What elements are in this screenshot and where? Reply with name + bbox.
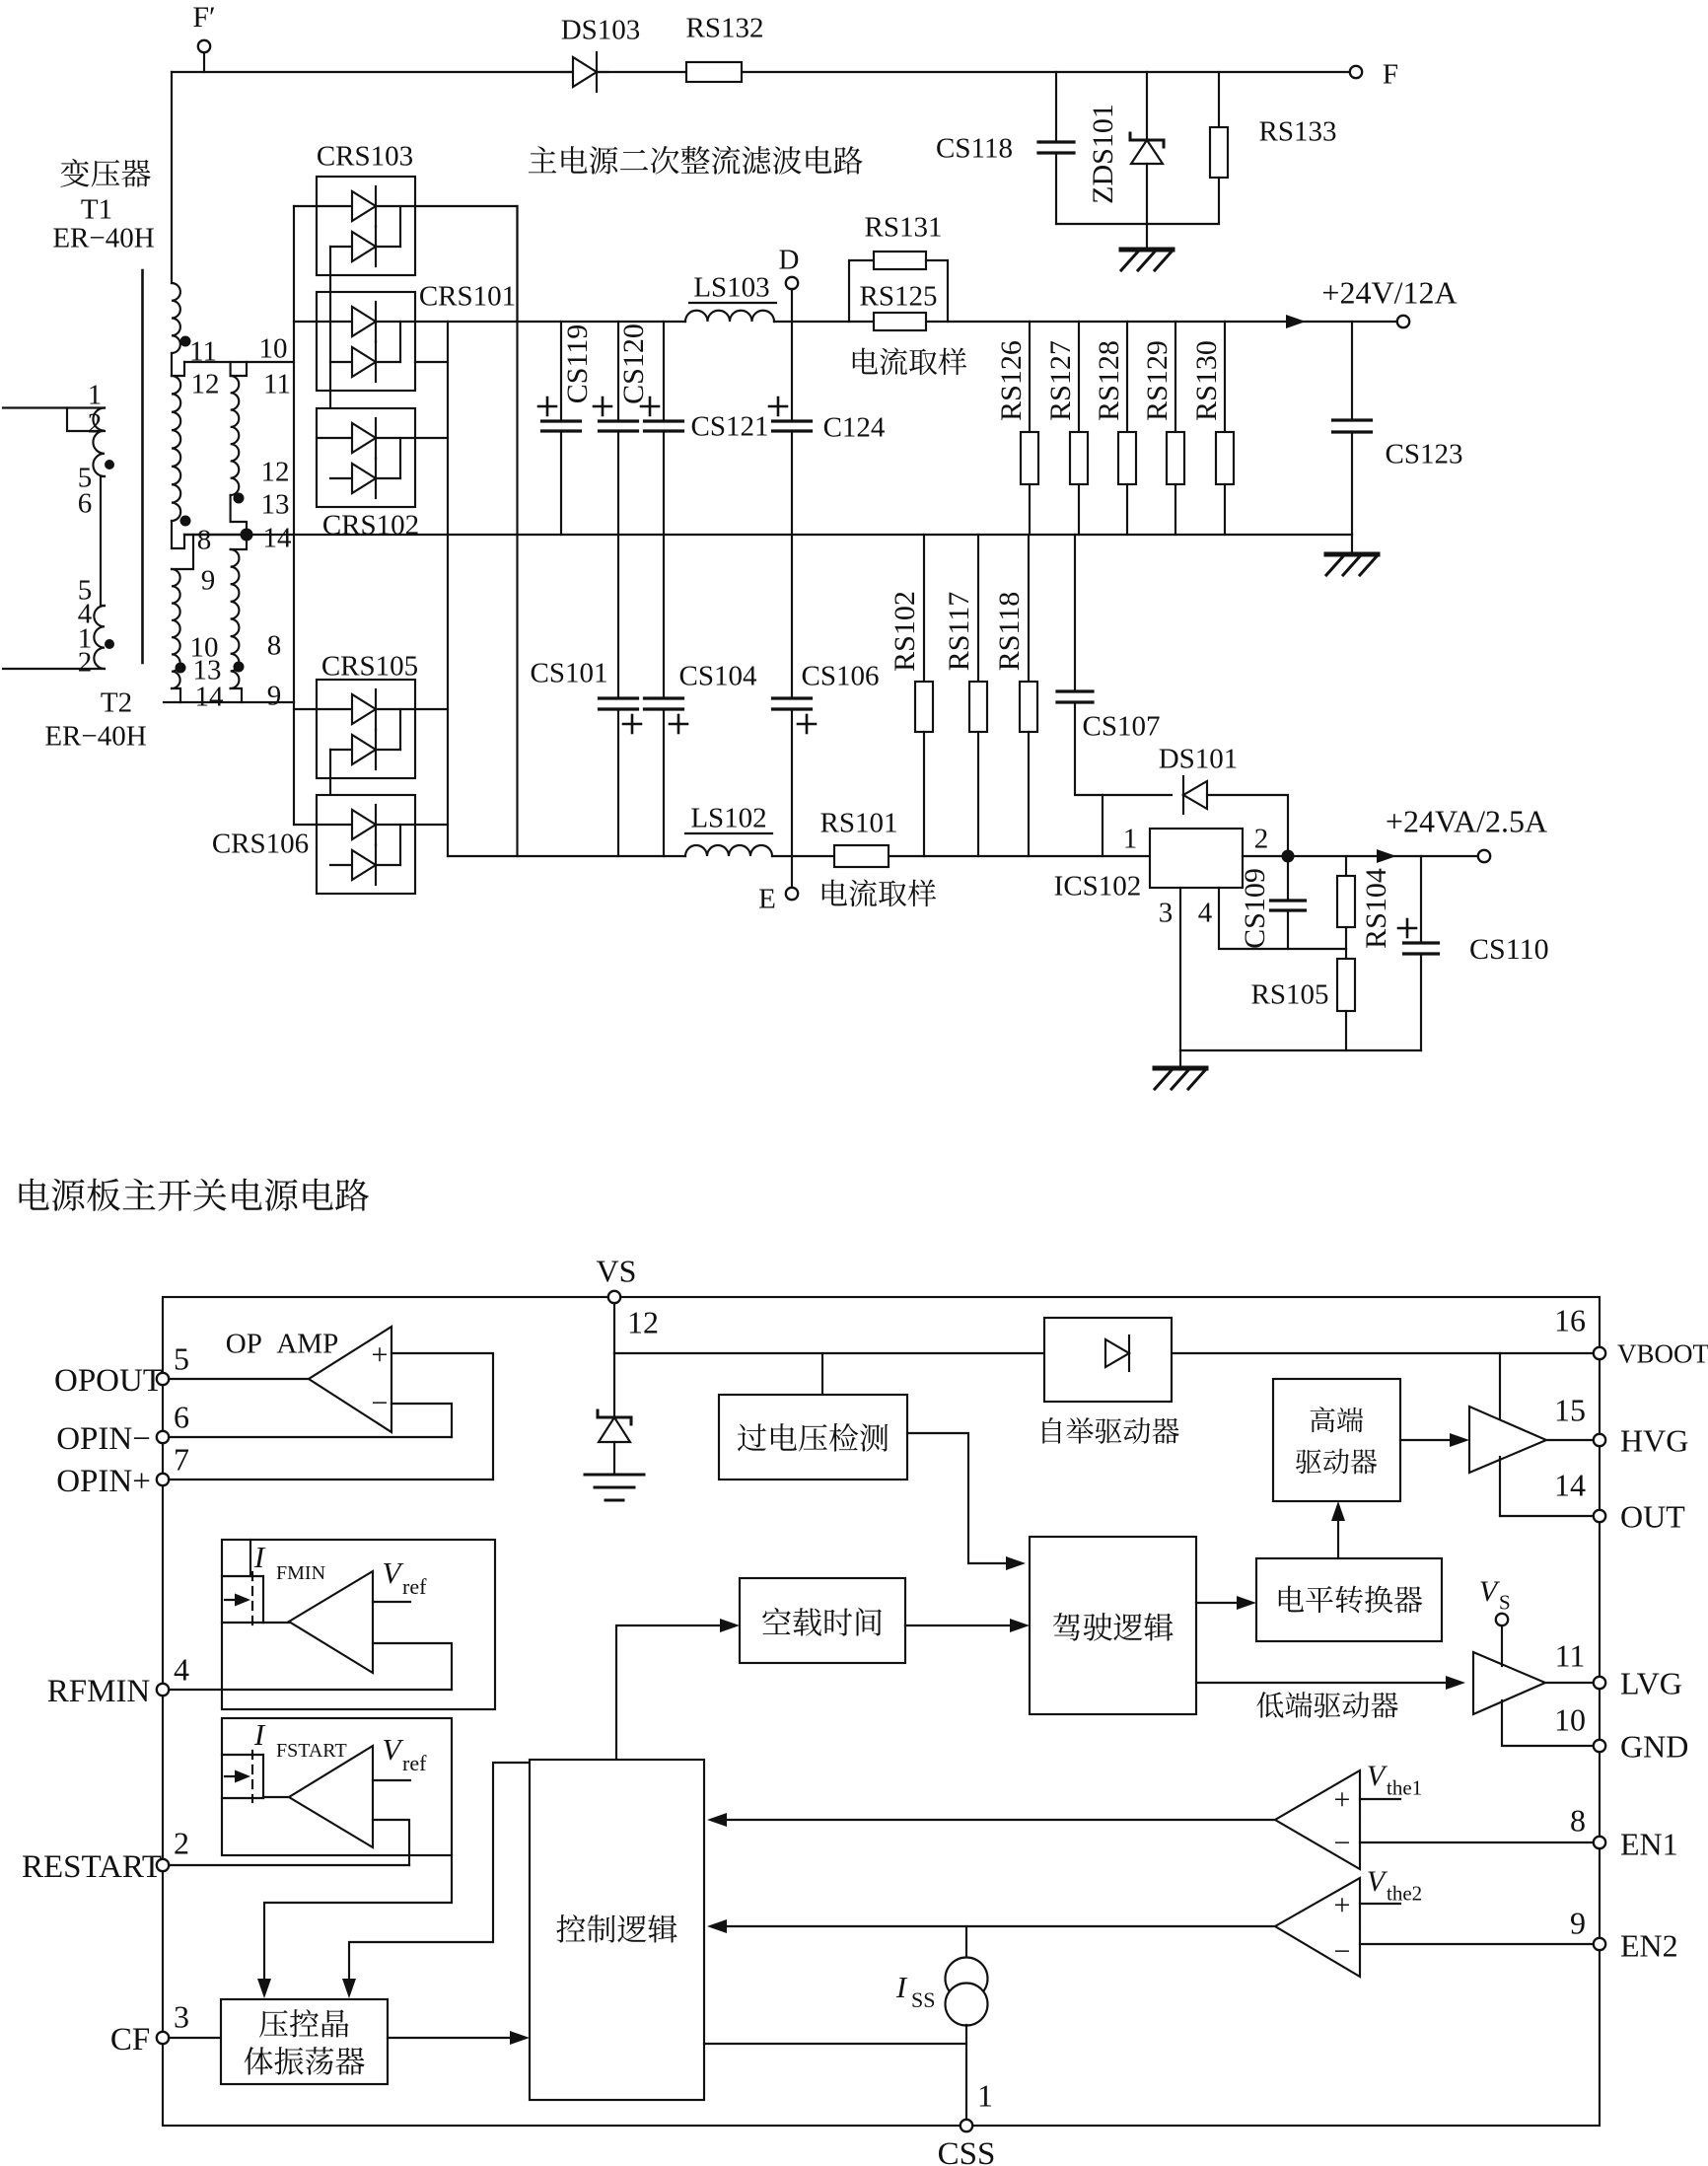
svg-text:12: 12 <box>261 456 290 487</box>
svg-text:F′: F′ <box>192 1 215 34</box>
svg-text:RS117: RS117 <box>943 592 975 672</box>
wire RESTART <box>169 1864 409 1866</box>
svg-text:VS: VS <box>597 1254 637 1289</box>
capacitor CS119 <box>542 322 581 535</box>
resistor RS104 <box>1337 856 1355 949</box>
pin2 RESTART <box>22 1826 189 1885</box>
wire ctrl to ISS <box>704 2043 966 2045</box>
pin7 OPIN+ <box>56 1442 189 1499</box>
label + (comp2) <box>1334 1889 1351 1921</box>
plus CS110 <box>1398 919 1416 937</box>
block 自举驱动器 <box>1044 1318 1172 1402</box>
anode tie CRS105-CRS106 <box>329 750 331 865</box>
pin15 HVG <box>1554 1393 1688 1459</box>
svg-text:−: − <box>1334 1935 1351 1968</box>
label ISS <box>895 1970 936 2012</box>
label CS106 <box>802 660 880 691</box>
dual diode CRS106 <box>317 795 415 894</box>
label 电流取样 (bottom) <box>822 879 936 906</box>
label + (comp1) <box>1334 1783 1351 1816</box>
svg-text:T1: T1 <box>81 193 112 225</box>
block 压控晶体振荡器 <box>221 1999 388 2084</box>
IC ICS102 <box>1150 829 1243 888</box>
svg-text:CRS103: CRS103 <box>317 140 413 172</box>
svg-text:RS132: RS132 <box>686 12 764 43</box>
svg-text:RS128: RS128 <box>1093 340 1125 421</box>
svg-text:I: I <box>253 1717 266 1752</box>
svg-text:CS119: CS119 <box>561 325 594 404</box>
svg-text:9: 9 <box>1570 1906 1586 1941</box>
comparator (IFSTART) <box>263 1746 373 1847</box>
svg-text:+24V/12A: +24V/12A <box>1321 275 1457 311</box>
svg-text:8: 8 <box>267 629 282 661</box>
capacitor CS109 <box>1271 856 1306 949</box>
pin4 RFMIN <box>47 1652 189 1709</box>
mosfet (IFMIN) <box>222 1572 263 1626</box>
wire CRS102 upper out <box>415 437 448 439</box>
label 低端驱动器 <box>1256 1692 1397 1718</box>
ground (pin3) <box>1155 1050 1206 1089</box>
block 高端驱动器 <box>1273 1379 1400 1501</box>
capacitor CS123 <box>1333 322 1372 535</box>
label RS133 <box>1259 115 1337 147</box>
dot (primary pin5) <box>105 460 114 469</box>
label 13 (right) <box>261 488 290 520</box>
svg-text:EN2: EN2 <box>1620 1928 1678 1964</box>
svg-text:2: 2 <box>174 1826 189 1861</box>
block IFMIN <box>222 1540 495 1709</box>
svg-text:EN1: EN1 <box>1620 1827 1678 1862</box>
capacitor C124 <box>773 421 812 431</box>
label 自举驱动器 <box>1042 1417 1178 1444</box>
label CS123 <box>1386 438 1463 469</box>
svg-text:OUT: OUT <box>1620 1499 1685 1535</box>
wire CRS105 out <box>415 708 448 710</box>
label RS104 <box>1360 868 1392 949</box>
zener (VS) <box>598 1353 631 1474</box>
svg-text:E: E <box>758 883 776 914</box>
svg-text:the1: the1 <box>1387 1776 1422 1800</box>
label Vref (IFMIN) <box>383 1555 428 1599</box>
label ER-40H (T2) <box>44 720 146 752</box>
label ICS102 <box>1054 870 1142 902</box>
dot (right bottom) <box>234 662 245 673</box>
capacitor CS118 <box>1038 72 1074 224</box>
terminal VS (LVG) <box>1479 1575 1511 1625</box>
plus CS120 <box>594 397 611 415</box>
svg-text:RS104: RS104 <box>1360 868 1392 949</box>
plus CS106 <box>798 715 816 733</box>
wire Vthe1 tick <box>1360 1798 1400 1800</box>
svg-text:D: D <box>779 244 800 275</box>
svg-text:9: 9 <box>267 680 282 711</box>
dot (pin 11) <box>180 336 191 347</box>
svg-text:2: 2 <box>78 646 93 678</box>
label 12 (left) <box>191 368 220 399</box>
mosfet (IFSTART) <box>222 1751 263 1802</box>
wire IFMIN lower input <box>373 1643 452 1690</box>
label CRS103 <box>317 140 413 172</box>
block 驾驶逻辑 <box>1030 1537 1196 1714</box>
label 压控晶体振荡器 <box>245 2009 365 2075</box>
wire deadtime feed <box>616 1619 740 1760</box>
wire D/C124/CS106 vertical <box>791 289 793 856</box>
label 11 (right) <box>263 368 291 399</box>
wire H1 (IFSTART to VCO) <box>257 1855 452 1998</box>
label RS128 <box>1093 340 1125 421</box>
label CS120 <box>617 324 650 404</box>
wire GND net <box>1502 1700 1594 1746</box>
label pin 4 (ICS102) <box>1198 897 1213 928</box>
wire pin4 <box>1219 888 1346 949</box>
block 空载时间 <box>740 1578 905 1663</box>
wire CRS101 upper anode <box>294 321 317 323</box>
label 驾驶逻辑 <box>1053 1613 1174 1641</box>
plus C124 <box>769 397 787 415</box>
junction dot +24VA <box>1282 850 1295 863</box>
svg-text:−: − <box>1334 1827 1351 1859</box>
wire opamp plus <box>169 1353 493 1480</box>
label F <box>1383 58 1398 90</box>
label D <box>779 244 800 275</box>
wire VS to LVG buffer <box>1501 1625 1503 1666</box>
svg-text:CRS101: CRS101 <box>419 280 516 312</box>
label RS102 <box>889 591 921 672</box>
svg-text:CF: CF <box>110 2022 150 2058</box>
ground (VS zener) <box>585 1475 644 1500</box>
anode bus x298 <box>294 206 317 825</box>
terminal E <box>786 856 798 900</box>
wire 高端 to buffer <box>1400 1433 1469 1447</box>
svg-text:RS101: RS101 <box>820 807 898 838</box>
svg-text:13: 13 <box>261 488 290 520</box>
wire comp2 out <box>707 1919 1275 1933</box>
ground (CS123) <box>1326 535 1378 575</box>
label 过电压检测 <box>738 1423 889 1452</box>
svg-text:F: F <box>1383 58 1398 90</box>
wire ISS to CSS <box>0 0 1 1</box>
svg-text:CSS: CSS <box>938 2136 996 2166</box>
resistor RS131 <box>849 252 948 322</box>
svg-text:FSTART: FSTART <box>276 1740 347 1762</box>
svg-text:CS106: CS106 <box>802 660 880 691</box>
label CSS <box>938 2136 996 2166</box>
label RS127 <box>1044 340 1077 421</box>
terminal CSS <box>961 2120 972 2131</box>
label CS110 <box>1469 933 1549 966</box>
svg-text:12: 12 <box>191 368 220 399</box>
pin8 EN1 <box>1570 1803 1678 1862</box>
wire Vthe2 tick <box>1360 1903 1400 1905</box>
label - (opamp) <box>372 1387 389 1419</box>
buffer HVG <box>1469 1407 1546 1473</box>
label RS125 <box>860 280 938 312</box>
wire primary series link <box>101 476 105 606</box>
label 14 (right) <box>263 522 293 553</box>
svg-text:+: + <box>1334 1889 1351 1921</box>
wire buffer to HVG <box>1546 1439 1594 1441</box>
label CS109 <box>1239 868 1271 949</box>
wire zener bottom rail <box>1056 223 1219 225</box>
capacitor CS101 <box>600 535 638 856</box>
svg-text:−: − <box>372 1387 389 1419</box>
svg-text:+: + <box>1334 1783 1351 1816</box>
label IFMIN <box>253 1540 325 1584</box>
label 2 (T2 primary) <box>78 646 93 678</box>
label 4 (T2 primary) <box>78 598 93 629</box>
label CS104 <box>679 660 757 691</box>
svg-text:OPIN−: OPIN− <box>56 1421 151 1457</box>
svg-text:ZDS101: ZDS101 <box>1087 104 1119 204</box>
svg-text:RS118: RS118 <box>993 592 1026 672</box>
vertical bus x454 <box>447 322 449 856</box>
label RS131 <box>865 211 943 243</box>
svg-text:4: 4 <box>174 1652 189 1688</box>
svg-text:GND: GND <box>1620 1729 1688 1765</box>
primary tie pins 1-2 <box>67 408 105 432</box>
label DS101 <box>1159 743 1239 774</box>
wire CRS106 upper anode <box>294 824 317 826</box>
resistor RS125 <box>874 313 926 330</box>
svg-text:11: 11 <box>263 368 291 399</box>
svg-text:LS102: LS102 <box>690 802 766 833</box>
label 1 (T2 primary) <box>78 622 93 654</box>
wire H2 (ctrl to VCO) <box>342 1763 530 1998</box>
svg-text:CS104: CS104 <box>679 660 757 691</box>
label 9 (left) <box>201 564 216 596</box>
label 6 (primary) <box>78 487 93 519</box>
svg-text:CRS106: CRS106 <box>212 828 309 859</box>
svg-text:the2: the2 <box>1387 1882 1422 1906</box>
wire pin3 ground <box>1179 888 1181 1050</box>
svg-text:1: 1 <box>977 2078 993 2114</box>
svg-text:RS133: RS133 <box>1259 115 1337 147</box>
wire CF <box>169 2037 221 2039</box>
label pin 3 (ICS102) <box>1159 897 1174 928</box>
label RS129 <box>1141 340 1174 421</box>
label RS132 <box>686 12 764 43</box>
wire OUT net <box>1500 1457 1594 1516</box>
svg-text:11: 11 <box>1555 1638 1586 1674</box>
svg-text:OPOUT: OPOUT <box>54 1363 163 1399</box>
label pin 2 (ICS102) <box>1254 823 1269 854</box>
svg-text:I: I <box>253 1540 266 1574</box>
resistor RS101 <box>834 845 889 867</box>
label RS117 <box>943 592 975 672</box>
svg-text:CS118: CS118 <box>936 132 1013 164</box>
label 电流取样 (top) <box>853 347 966 375</box>
svg-text:ICS102: ICS102 <box>1054 870 1142 902</box>
svg-text:CS101: CS101 <box>531 657 608 688</box>
resistor RS128 <box>1118 322 1136 535</box>
svg-text:2: 2 <box>1254 823 1269 854</box>
label CS118 <box>936 132 1013 164</box>
label 11 (left) <box>189 335 217 367</box>
label CS101 <box>531 657 608 688</box>
svg-text:4: 4 <box>1198 897 1213 928</box>
inductor LS102 <box>685 845 772 856</box>
wire drive to levelshift <box>1196 1596 1256 1610</box>
label 主电源二次整流滤波电路 <box>529 146 863 175</box>
inductor LS103 <box>685 311 774 322</box>
terminal F' <box>198 40 210 52</box>
wire Vref tick (IFMIN) <box>373 1601 410 1603</box>
label 控制逻辑 <box>556 1914 676 1942</box>
label 5 (primary) <box>78 462 93 493</box>
pin9 EN2 <box>1570 1906 1678 1964</box>
junction dot pin8/14 <box>241 529 253 541</box>
label Vthe1 <box>1367 1760 1422 1800</box>
label CS107 <box>1083 710 1161 742</box>
svg-text:CRS105: CRS105 <box>321 650 418 682</box>
svg-text:8: 8 <box>1570 1803 1586 1839</box>
label 变压器 <box>61 159 151 187</box>
svg-text:RS127: RS127 <box>1044 340 1077 421</box>
svg-text:CRS102: CRS102 <box>322 509 419 541</box>
svg-text:3: 3 <box>174 1999 189 2035</box>
wire VCO out <box>388 2031 530 2045</box>
wire top F bus <box>172 52 1350 283</box>
label CS119 <box>561 325 594 404</box>
label F' <box>192 1 215 34</box>
label LS103 <box>689 271 776 303</box>
plus CS101 <box>623 715 641 733</box>
ground (ZDS101) <box>1121 250 1173 270</box>
label T2 <box>101 686 132 718</box>
svg-text:ER−40H: ER−40H <box>44 720 146 752</box>
label 5 (T2 primary) <box>78 574 93 606</box>
svg-text:8: 8 <box>197 524 212 555</box>
arrow +24V <box>1286 315 1306 328</box>
wire CRS105 upper anode <box>294 708 317 710</box>
svg-text:FMIN: FMIN <box>276 1562 325 1584</box>
terminal D <box>786 277 798 289</box>
svg-text:RS130: RS130 <box>1190 340 1223 421</box>
label 10 (right) <box>259 332 288 364</box>
label CS121 <box>691 410 769 442</box>
resistor RS130 <box>1216 322 1234 535</box>
ground rail <box>184 534 1352 536</box>
svg-text:RS129: RS129 <box>1141 340 1174 421</box>
wire ground-rail origin <box>184 534 247 536</box>
resistor RS127 <box>1070 322 1088 535</box>
resistor RS132 <box>686 62 742 82</box>
label 9 (right bottom) <box>267 680 282 711</box>
plus CS121 <box>641 397 659 415</box>
wire +24V rail <box>415 321 1397 323</box>
wire OVP to drive logic <box>907 1433 1026 1570</box>
label 10 (left bottom) <box>190 631 219 663</box>
pin5 OPOUT <box>54 1341 189 1399</box>
winding secondary left group3 <box>172 569 180 688</box>
label CRS105 <box>321 650 418 682</box>
svg-text:T2: T2 <box>101 686 132 718</box>
wire primary pin1 <box>3 406 105 408</box>
label - (comp1) <box>1334 1827 1351 1859</box>
wire RFMIN <box>169 1689 452 1691</box>
wire CRS106 out <box>415 824 448 826</box>
label IFSTART <box>253 1717 347 1762</box>
winding secondary left group2 <box>172 376 180 548</box>
svg-text:SS: SS <box>911 1987 935 2012</box>
dot (pin 13 left) <box>176 663 186 674</box>
svg-text:1: 1 <box>88 379 103 410</box>
svg-text:ER−40H: ER−40H <box>52 222 154 253</box>
svg-text:I: I <box>895 1970 908 2004</box>
svg-text:RS102: RS102 <box>889 591 921 672</box>
tie pin 9 right <box>231 535 247 549</box>
resistor RS117 <box>969 535 987 856</box>
svg-text:HVG: HVG <box>1620 1423 1688 1459</box>
svg-text:CS110: CS110 <box>1469 933 1549 966</box>
terminal +24VA <box>1478 850 1490 862</box>
block 电平转换器 <box>1256 1558 1442 1641</box>
buffer LVG <box>1473 1652 1545 1714</box>
label T1 <box>81 193 112 225</box>
svg-text:14: 14 <box>195 681 225 712</box>
junction VBOOT drop <box>1499 1353 1501 1420</box>
label C124 <box>823 411 886 443</box>
core T1/T2 <box>141 270 144 663</box>
dot (T2 pin1) <box>105 639 114 649</box>
label 12 (right) <box>261 456 290 487</box>
label 高端驱动器 <box>1296 1407 1377 1474</box>
svg-text:12: 12 <box>627 1305 659 1340</box>
svg-text:5: 5 <box>174 1341 189 1377</box>
wire CRS103 output <box>415 206 518 322</box>
tap wire bottom tie <box>164 688 294 702</box>
svg-text:DS103: DS103 <box>561 14 641 45</box>
resistor RS118 <box>1020 535 1037 856</box>
svg-text:S: S <box>1499 1591 1511 1615</box>
current source ISS <box>946 1926 988 2120</box>
label 电平转换器 <box>1279 1586 1422 1614</box>
dual diode CRS101 <box>317 292 415 391</box>
pin10 GND <box>1554 1702 1688 1765</box>
svg-text:RS131: RS131 <box>865 211 943 243</box>
label E <box>758 883 776 914</box>
winding secondary left group1 <box>172 283 180 376</box>
svg-text:1: 1 <box>1123 823 1138 854</box>
wire E rail <box>448 855 1150 857</box>
label 1 (primary) <box>88 379 103 410</box>
svg-text:14: 14 <box>1554 1468 1586 1503</box>
anode tie CRS103-CRS101-CRS102 <box>329 247 331 478</box>
label 8 (left) <box>197 524 212 555</box>
dual diode CRS105 <box>317 680 415 778</box>
label +24VA/2.5A <box>1386 804 1547 839</box>
label VS <box>597 1254 637 1289</box>
label pin 1 (ICS102) <box>1123 823 1138 854</box>
pin16 VBOOT <box>1554 1303 1708 1369</box>
label CRS101 <box>419 280 516 312</box>
svg-text:15: 15 <box>1554 1393 1586 1428</box>
label 14 (left bottom) <box>195 681 225 712</box>
svg-text:2: 2 <box>88 407 103 439</box>
block 过电压检测 <box>719 1353 907 1480</box>
resistor RS105 <box>1337 949 1355 1050</box>
label ER-40H (T1) <box>52 222 154 253</box>
svg-text:+: + <box>372 1338 389 1371</box>
capacitor CS121 <box>645 322 683 535</box>
comparator (IFMIN) <box>263 1571 373 1673</box>
label RS130 <box>1190 340 1223 421</box>
tie pin 9 left <box>172 535 193 569</box>
svg-text:V: V <box>383 1555 404 1590</box>
terminal F <box>1350 66 1362 78</box>
dot (pin 8 left) <box>180 516 191 527</box>
label LS102 <box>685 802 772 833</box>
